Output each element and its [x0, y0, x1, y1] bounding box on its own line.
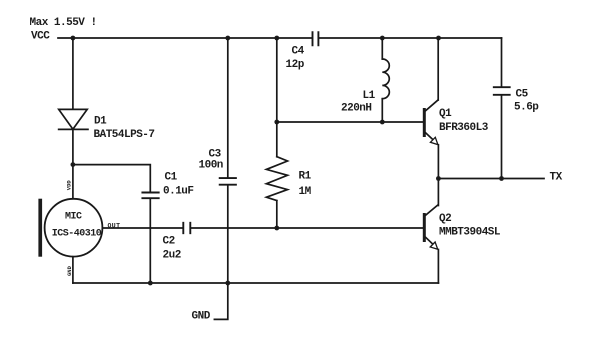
wire MIC OUT to C2 — [102, 227, 182, 229]
wire C2 to Q2 base — [191, 227, 423, 229]
junction dot R1 / OUT line — [274, 226, 279, 231]
junction dot VCC / C3 — [225, 36, 230, 41]
junction dot ground / C3-GND stub — [225, 281, 230, 286]
microphone U1 ICS-40310 body — [38, 199, 102, 257]
wire ground rail — [73, 282, 439, 284]
svg-text:R1: R1 — [299, 170, 312, 182]
svg-text:C2: C2 — [163, 236, 175, 248]
capacitor C3 — [220, 178, 236, 185]
svg-text:GND: GND — [192, 311, 211, 323]
svg-text:BAT54LPS-7: BAT54LPS-7 — [94, 129, 155, 141]
wire C5 top lead — [501, 38, 503, 87]
wire GND stub — [214, 283, 227, 319]
wire Q2 emitter down to ground rail — [437, 250, 439, 284]
capacitor C1 — [142, 193, 158, 199]
junction dot ground / C1 — [148, 281, 153, 286]
svg-text:220nH: 220nH — [341, 102, 372, 114]
junction dot base line / L1 bottom — [380, 120, 385, 125]
svg-text:100n: 100n — [199, 159, 223, 171]
svg-text:12p: 12p — [286, 59, 305, 71]
svg-text:MMBT3904SL: MMBT3904SL — [439, 227, 501, 239]
svg-text:D1: D1 — [94, 116, 107, 128]
transistor Q1 BFR360L3 — [423, 100, 438, 145]
wire D1 cathode down to MIC VDD pin — [72, 129, 74, 199]
wire C3 bottom lead to ground rail — [227, 185, 229, 283]
svg-text:C4: C4 — [292, 46, 305, 58]
wire C1 bottom lead to ground rail — [149, 199, 151, 284]
junction dot VCC / R1 drop — [274, 36, 279, 41]
svg-text:BFR360L3: BFR360L3 — [439, 122, 489, 134]
svg-text:2u2: 2u2 — [163, 250, 181, 262]
svg-text:5.6p: 5.6p — [514, 102, 539, 114]
capacitor C2 — [183, 223, 190, 233]
wire Q1 emitter to Q2 collector — [437, 145, 439, 206]
svg-text:C1: C1 — [165, 172, 178, 184]
transistor Q2 MMBT3904SL — [423, 205, 438, 249]
wire VCC rail right segment — [320, 37, 502, 39]
wire branch to C1 top — [73, 165, 150, 192]
svg-text:Max 1.55V !: Max 1.55V ! — [30, 17, 97, 29]
junction dot D1 / C1 branch — [71, 162, 76, 167]
svg-text:L1: L1 — [363, 90, 376, 102]
wire VCC drop to base line — [276, 38, 278, 122]
wire D1 anode drop — [72, 38, 74, 109]
diode D1 — [59, 109, 88, 129]
junction dot base line / R1 top — [274, 120, 279, 125]
resistor R1 — [266, 122, 287, 228]
junction dot VCC / D1 — [71, 36, 76, 41]
wire C5 bottom lead to TX line — [501, 95, 503, 179]
svg-text:VCC: VCC — [31, 31, 50, 43]
svg-text:Q1: Q1 — [439, 108, 452, 120]
svg-text:Q2: Q2 — [439, 213, 451, 225]
junction dot C5 / TX — [499, 176, 504, 181]
wire C3 top lead — [227, 38, 229, 178]
svg-text:ICS-40310: ICS-40310 — [52, 228, 102, 239]
svg-text:TX: TX — [550, 172, 563, 184]
junction dot TX tap — [436, 176, 441, 181]
wire TX line — [438, 178, 544, 180]
inductor L1 — [382, 38, 389, 122]
wire VCC rail left segment — [58, 37, 311, 39]
junction dot VCC / Q1 collector — [436, 36, 441, 41]
svg-text:0.1uF: 0.1uF — [163, 186, 194, 198]
svg-text:MIC: MIC — [65, 212, 82, 223]
capacitor C5 — [494, 87, 510, 95]
svg-text:VDD: VDD — [66, 180, 73, 191]
junction dot VCC / L1 — [380, 36, 385, 41]
wire Q1 collector to VCC — [437, 38, 439, 100]
svg-text:1M: 1M — [299, 186, 312, 198]
wire base line to Q1 — [277, 121, 423, 123]
capacitor C4 — [313, 32, 319, 45]
wire MIC GND pin — [72, 257, 74, 283]
svg-text:C5: C5 — [516, 89, 529, 101]
